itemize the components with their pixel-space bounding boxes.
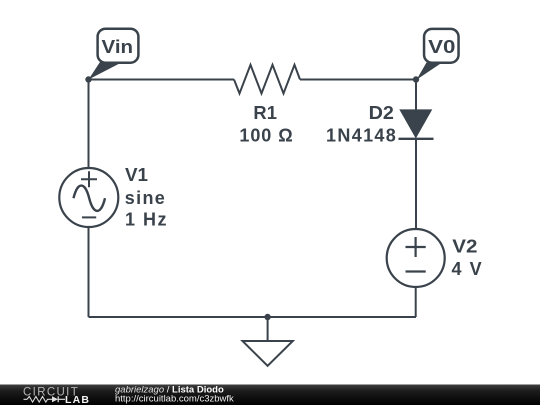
ground node dot (264, 314, 270, 320)
voltage source V1 (sine) (59, 168, 118, 227)
wire left vertical upper (88, 80, 90, 169)
svg-text:V0: V0 (428, 37, 455, 57)
wire right vertical upper (415, 80, 417, 111)
wire right vertical lower (415, 287, 417, 317)
svg-text:D2: D2 (369, 103, 394, 123)
svg-text:1 Hz: 1 Hz (125, 209, 167, 229)
svg-text:4V: 4V (452, 259, 482, 279)
svg-text:V2: V2 (452, 237, 477, 257)
svg-text:1N4148: 1N4148 (326, 126, 396, 146)
voltage source V2 (dc) (387, 229, 445, 287)
ground symbol (243, 341, 293, 366)
diode D2 triangle (399, 109, 432, 138)
svg-text:sine: sine (125, 188, 165, 208)
svg-text:V1: V1 (125, 165, 148, 185)
flag Vin (89, 29, 139, 80)
wire top right (resistor to node V0) (300, 79, 416, 81)
diode D2 cathode bar (399, 138, 434, 140)
svg-text:http://circuitlab.com/c3zbwfk: http://circuitlab.com/c3zbwfk (115, 394, 234, 405)
node V0 dot (413, 76, 419, 82)
resistor R1 (234, 65, 300, 94)
svg-text:R1: R1 (253, 103, 277, 123)
svg-text:100 Ω: 100 Ω (239, 126, 292, 146)
flag V0 (417, 29, 459, 80)
wire bottom (89, 316, 417, 318)
footer bar (0, 385, 540, 405)
wire left vertical lower (88, 227, 90, 317)
node Vin dot (85, 76, 91, 82)
logo diode (52, 396, 58, 402)
svg-text:LAB: LAB (65, 394, 89, 405)
wire right vertical middle (415, 139, 417, 230)
svg-text:Vin: Vin (102, 37, 134, 57)
ground stub wire (267, 317, 269, 341)
wire top left (node Vin to resistor) (89, 79, 235, 81)
logo resistor squiggle (24, 397, 52, 403)
